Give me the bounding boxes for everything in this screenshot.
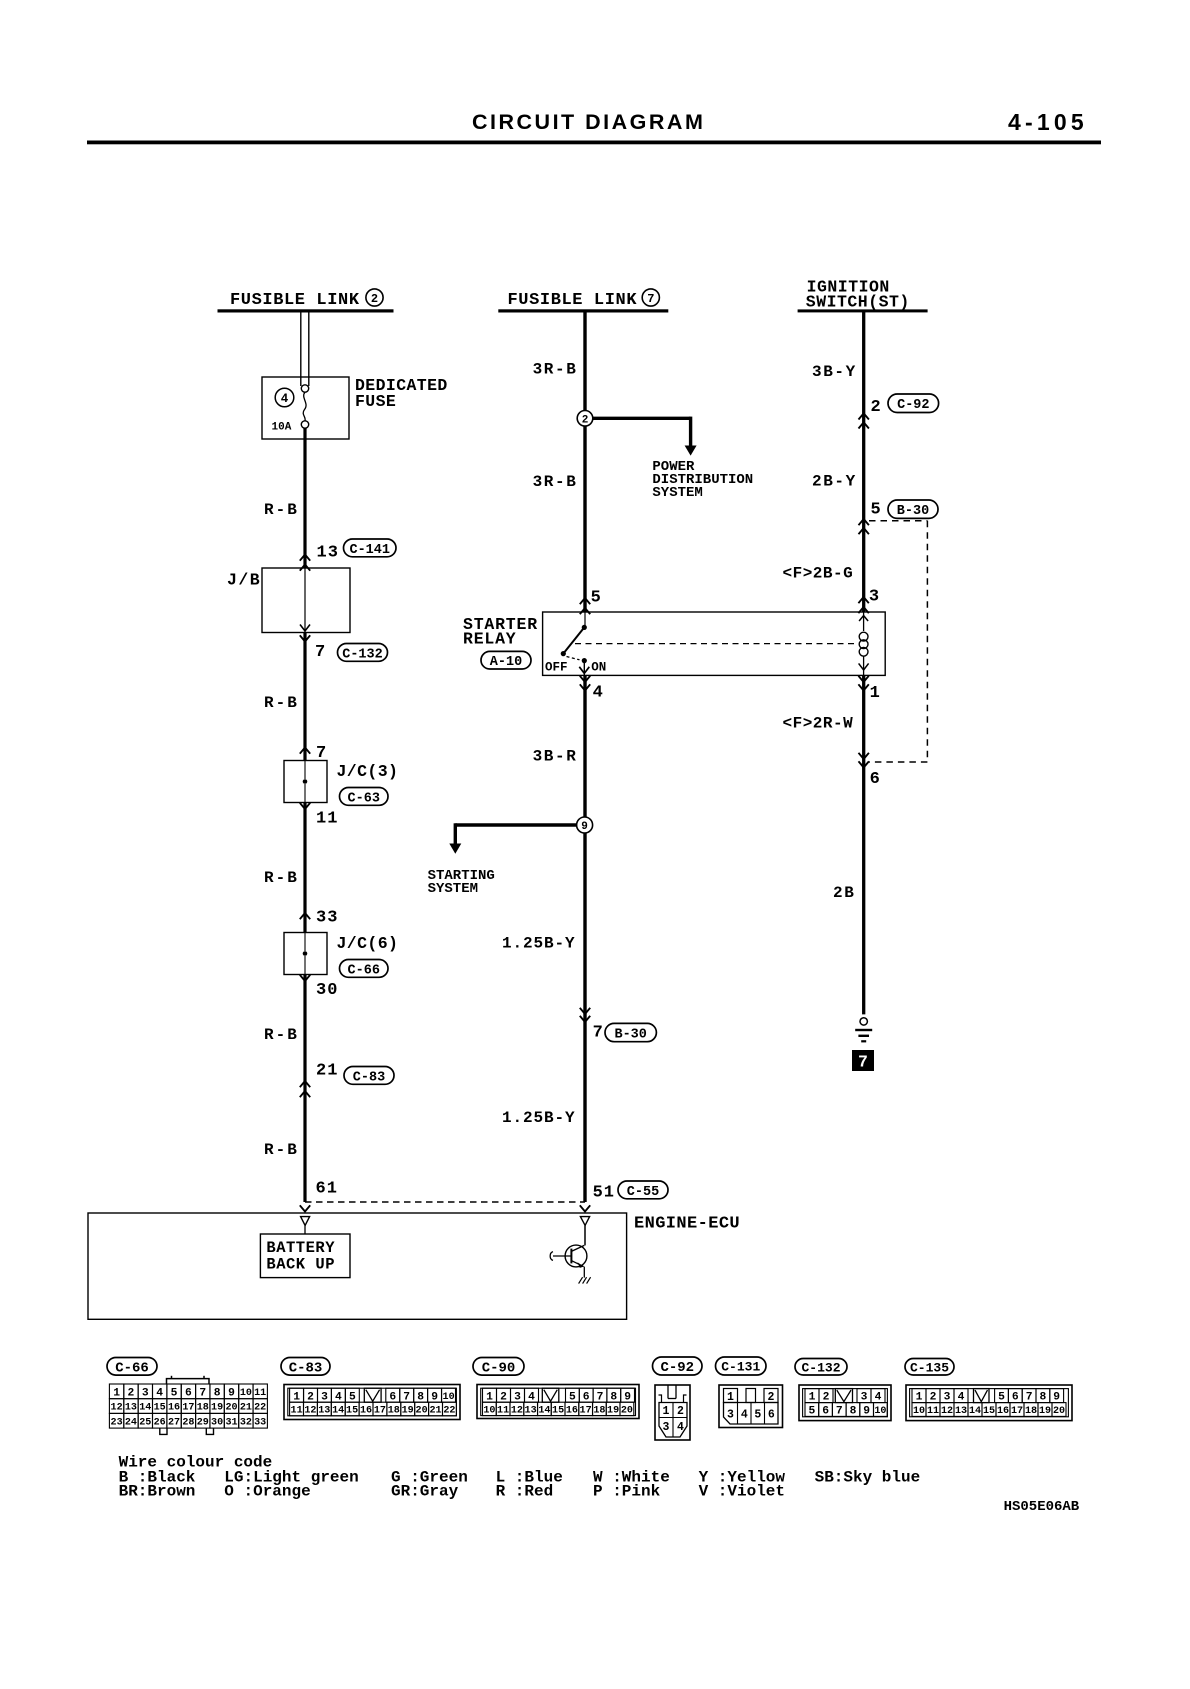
- svg-text:OFF: OFF: [545, 661, 568, 675]
- svg-text:61: 61: [316, 1180, 338, 1199]
- svg-text:2: 2: [930, 1392, 937, 1404]
- svg-text:O :Orange: O :Orange: [224, 1482, 310, 1500]
- wire 1.25B-Y node 9 to B-30: [583, 833, 586, 1202]
- pin 33 label: [316, 909, 338, 928]
- connector label C-141: [344, 539, 397, 558]
- ECU input triangle pin 51: [580, 1217, 589, 1226]
- svg-text:9: 9: [228, 1387, 235, 1399]
- connector C-66 bottom tabs: [160, 1428, 214, 1434]
- wire label 2B-Y: [812, 473, 857, 491]
- svg-text:20: 20: [225, 1403, 237, 1414]
- svg-text:1: 1: [486, 1391, 493, 1403]
- ENGINE-ECU box: [88, 1213, 627, 1319]
- svg-text:8: 8: [850, 1406, 857, 1418]
- svg-text:26: 26: [154, 1417, 166, 1428]
- svg-text:C-55: C-55: [627, 1185, 659, 1200]
- dashed wire pin 61 to pin 51: [305, 1201, 585, 1203]
- pin 13 label: [317, 544, 339, 563]
- pin 11 label: [316, 810, 338, 829]
- connector label C-83: [281, 1358, 330, 1377]
- svg-text:29: 29: [197, 1417, 209, 1428]
- node label FUSIBLE LINK 7: [508, 289, 660, 310]
- svg-text:14: 14: [969, 1406, 981, 1417]
- svg-text:SB:Sky blue: SB:Sky blue: [815, 1468, 921, 1486]
- svg-text:2: 2: [871, 398, 881, 417]
- fuse F4 element: [301, 385, 308, 428]
- wire label R-B (5): [264, 1141, 299, 1159]
- svg-text:C-66: C-66: [348, 963, 380, 978]
- svg-text:8: 8: [417, 1391, 424, 1403]
- svg-text:BR:Brown: BR:Brown: [119, 1482, 196, 1500]
- svg-text:7: 7: [597, 1391, 604, 1403]
- wire inside J/B: [300, 568, 310, 633]
- wire label R-B (4): [264, 1026, 299, 1044]
- svg-text:3: 3: [727, 1409, 734, 1422]
- node label IGNITION SWITCH(ST): [806, 278, 910, 312]
- svg-text:9: 9: [863, 1406, 870, 1418]
- svg-text:11: 11: [316, 810, 338, 829]
- pin 4 label starter relay: [593, 684, 603, 703]
- svg-text:C-132: C-132: [342, 647, 383, 662]
- connector chevron at pin 30: [300, 975, 310, 981]
- svg-text:SYSTEM: SYSTEM: [652, 485, 702, 501]
- label DEDICATED FUSE: [355, 376, 448, 411]
- wire label R-B (1): [264, 501, 299, 519]
- connector C-132 key: [835, 1389, 852, 1403]
- wire label R-B (2): [264, 694, 299, 712]
- svg-text:J/C(3): J/C(3): [337, 762, 399, 781]
- svg-text:15: 15: [346, 1406, 358, 1417]
- svg-text:2: 2: [500, 1391, 507, 1403]
- svg-text:19: 19: [211, 1403, 223, 1414]
- wire label 3R-B (1): [533, 360, 578, 378]
- connector label C-55: [618, 1181, 668, 1200]
- svg-text:19: 19: [607, 1406, 619, 1417]
- wire label R-B (3): [264, 869, 299, 887]
- svg-text:7: 7: [836, 1406, 843, 1418]
- svg-text:11: 11: [291, 1406, 303, 1417]
- wire colour code row 2: [119, 1482, 785, 1500]
- svg-text:9: 9: [624, 1391, 631, 1403]
- relay internal dashed link: [575, 643, 856, 645]
- page number 4-105: [1008, 109, 1088, 135]
- connector chevrons at pin 21: [300, 1081, 310, 1097]
- svg-text:1.25B-Y: 1.25B-Y: [502, 1109, 576, 1127]
- svg-text:20: 20: [416, 1406, 428, 1417]
- svg-text:1: 1: [809, 1392, 816, 1404]
- connector C-135 pin grid row 2: [912, 1403, 1066, 1418]
- wire label 1.25B-Y (1): [502, 934, 576, 952]
- svg-text:18: 18: [388, 1406, 400, 1417]
- svg-text:4: 4: [593, 684, 603, 703]
- svg-text:18: 18: [1025, 1406, 1037, 1417]
- svg-text:R-B: R-B: [264, 694, 299, 712]
- svg-text:17: 17: [1011, 1406, 1023, 1417]
- pin 61 label: [316, 1180, 338, 1199]
- label J/C(6): [337, 934, 399, 953]
- label BATTERY BACK UP: [266, 1239, 335, 1274]
- label STARTING SYSTEM: [428, 868, 495, 897]
- wire R-B J/C(6) to ECU: [303, 975, 306, 1203]
- connector chevrons at pin 2: [859, 413, 869, 428]
- bus bar under FUSIBLE LINK 7: [498, 309, 668, 312]
- svg-text:C-63: C-63: [348, 791, 380, 806]
- svg-text:1: 1: [870, 684, 880, 703]
- splice node 9: [577, 817, 593, 833]
- svg-text:V :Violet: V :Violet: [699, 1482, 785, 1500]
- svg-text:J/C(6): J/C(6): [337, 934, 399, 953]
- svg-text:20: 20: [621, 1406, 633, 1417]
- label STARTER RELAY: [463, 615, 538, 648]
- svg-text:ON: ON: [591, 661, 606, 675]
- pin 7 label (C-132): [315, 643, 325, 662]
- wire colour code row 1: [119, 1468, 921, 1486]
- svg-text:<F>2B-G: <F>2B-G: [783, 565, 854, 583]
- svg-text:GR:Gray: GR:Gray: [391, 1482, 459, 1500]
- svg-text:17: 17: [182, 1403, 194, 1414]
- svg-text:2B: 2B: [833, 884, 855, 902]
- connector C-92 shell: [655, 1385, 690, 1440]
- connector chevron at pin 11: [300, 803, 310, 809]
- BATTERY BACK UP box: [260, 1234, 350, 1278]
- connector label C-90: [473, 1358, 524, 1377]
- svg-text:7: 7: [1026, 1392, 1033, 1404]
- starter relay box: [543, 612, 886, 675]
- joint connector J/C(3) box: [284, 761, 327, 803]
- svg-text:R-B: R-B: [264, 869, 299, 887]
- pin 51 label: [593, 1183, 615, 1202]
- pin 7 label above J/C(3): [316, 744, 326, 763]
- svg-text:9: 9: [581, 821, 588, 833]
- wire label 3B-Y: [812, 363, 857, 381]
- connector C-132 outer shell: [799, 1385, 891, 1421]
- branch wire to power distribution system: [593, 417, 697, 456]
- svg-text:7: 7: [403, 1391, 410, 1403]
- connector C-83 pin grid row 1: [290, 1388, 456, 1403]
- svg-text:14: 14: [139, 1403, 151, 1414]
- svg-text:6: 6: [768, 1409, 775, 1422]
- svg-text:11: 11: [497, 1406, 509, 1417]
- svg-text:3: 3: [861, 1392, 868, 1404]
- connector C-83 key: [364, 1388, 381, 1402]
- connector label C-131: [716, 1357, 767, 1375]
- svg-text:B-30: B-30: [614, 1027, 646, 1042]
- ground number box 7: [852, 1050, 874, 1072]
- bus bar under IGNITION SWITCH: [798, 309, 928, 312]
- svg-text:22: 22: [443, 1406, 455, 1417]
- connector label B-30 inline: [605, 1023, 656, 1042]
- svg-text:7: 7: [858, 1053, 868, 1072]
- svg-text:16: 16: [168, 1403, 180, 1414]
- svg-text:7: 7: [593, 1023, 603, 1042]
- svg-text:9: 9: [1053, 1392, 1060, 1404]
- connector chevron at pin 51: [580, 1205, 590, 1211]
- connector chevrons at relay pin 5: [580, 598, 590, 614]
- connector label C-92: [653, 1357, 703, 1376]
- svg-text:1: 1: [293, 1391, 300, 1403]
- connector C-66 top tab: [167, 1376, 210, 1384]
- joint connector J/C(6) box: [284, 933, 327, 975]
- connector label C-135: [905, 1359, 954, 1376]
- svg-text:1: 1: [663, 1405, 670, 1418]
- svg-text:3B-R: 3B-R: [533, 747, 578, 765]
- connector C-131 shell: [719, 1385, 783, 1428]
- svg-text:4: 4: [156, 1387, 163, 1399]
- svg-text:SWITCH(ST): SWITCH(ST): [806, 292, 910, 311]
- svg-text:4-105: 4-105: [1008, 109, 1088, 135]
- svg-text:9: 9: [431, 1391, 438, 1403]
- wire 3B-Y ignition switch to C-92: [862, 311, 865, 612]
- wire label F 2R-W: [783, 715, 854, 733]
- pin 30 label: [316, 981, 338, 1000]
- svg-text:28: 28: [182, 1417, 194, 1428]
- connector C-83 outer shell: [284, 1385, 460, 1420]
- label POWER DISTRIBUTION SYSTEM: [652, 459, 753, 501]
- connector C-92 pin area: [659, 1403, 687, 1438]
- svg-text:19: 19: [402, 1406, 414, 1417]
- wire label 1.25B-Y (2): [502, 1109, 576, 1127]
- svg-text:3R-B: 3R-B: [533, 360, 578, 378]
- svg-text:C-135: C-135: [910, 1360, 949, 1375]
- wire 3R-B node 2 to starter relay: [583, 426, 586, 612]
- svg-text:3: 3: [142, 1387, 149, 1399]
- svg-text:RELAY: RELAY: [463, 629, 517, 648]
- svg-text:C-92: C-92: [897, 398, 929, 413]
- svg-text:BACK UP: BACK UP: [266, 1256, 335, 1274]
- svg-text:3: 3: [944, 1392, 951, 1404]
- wire 3B-R relay to node 9: [583, 675, 586, 817]
- svg-text:21: 21: [240, 1403, 252, 1414]
- svg-text:6: 6: [1012, 1392, 1019, 1404]
- svg-text:4: 4: [335, 1391, 342, 1403]
- ground symbol: [855, 1018, 872, 1043]
- wire colour code heading: [119, 1454, 273, 1472]
- connector C-131 pin area: [724, 1389, 779, 1425]
- svg-text:C-92: C-92: [660, 1360, 694, 1376]
- svg-text:27: 27: [168, 1417, 180, 1428]
- svg-text:12: 12: [304, 1406, 316, 1417]
- connector C-90 pin grid row 2: [483, 1402, 634, 1416]
- connector label C-132: [795, 1359, 847, 1376]
- fuse F4 number circle 4: [275, 388, 294, 407]
- connector C-90 key: [542, 1388, 559, 1402]
- svg-text:5: 5: [349, 1391, 356, 1403]
- connector chevron at pin 7 above J/C(3): [300, 748, 310, 754]
- connector C-90 outer shell: [477, 1385, 639, 1419]
- svg-text:4: 4: [677, 1421, 684, 1434]
- svg-text:C-141: C-141: [349, 543, 390, 558]
- header title CIRCUIT DIAGRAM: [472, 110, 705, 134]
- svg-text:FUSIBLE LINK: FUSIBLE LINK: [508, 291, 638, 310]
- svg-text:5: 5: [569, 1391, 576, 1403]
- header rule: [87, 141, 1101, 145]
- svg-text:31: 31: [225, 1417, 237, 1428]
- connector C-135 key: [974, 1389, 990, 1403]
- svg-text:FUSIBLE LINK: FUSIBLE LINK: [230, 291, 360, 310]
- connector chevrons at relay pin 4: [580, 676, 590, 691]
- svg-text:13: 13: [125, 1403, 137, 1414]
- svg-text:13: 13: [525, 1406, 537, 1417]
- pin 5 label B-30: [871, 501, 881, 520]
- svg-text:17: 17: [580, 1406, 592, 1417]
- svg-text:R :Red: R :Red: [496, 1482, 554, 1500]
- svg-text:6: 6: [583, 1391, 590, 1403]
- svg-text:10A: 10A: [272, 422, 292, 434]
- svg-text:R-B: R-B: [264, 501, 299, 519]
- svg-text:8: 8: [610, 1391, 617, 1403]
- svg-text:23: 23: [111, 1417, 123, 1428]
- svg-text:17: 17: [374, 1406, 386, 1417]
- svg-text:15: 15: [154, 1403, 166, 1414]
- label ON: [591, 661, 606, 675]
- svg-text:C-90: C-90: [482, 1360, 516, 1376]
- connector chevrons at relay pin 3: [858, 597, 868, 613]
- svg-text:R-B: R-B: [264, 1026, 299, 1044]
- svg-text:16: 16: [360, 1406, 372, 1417]
- svg-text:2: 2: [307, 1391, 314, 1403]
- svg-text:B-30: B-30: [897, 504, 929, 519]
- label J/B: [227, 571, 261, 590]
- svg-text:4: 4: [875, 1392, 882, 1404]
- relay switch armature: [561, 612, 590, 675]
- svg-text:1: 1: [113, 1387, 120, 1399]
- svg-text:11: 11: [254, 1388, 266, 1399]
- wire R-B fuse to J/B: [303, 428, 306, 568]
- svg-text:7: 7: [199, 1387, 206, 1399]
- svg-text:5: 5: [809, 1406, 816, 1418]
- svg-text:16: 16: [566, 1406, 578, 1417]
- bus bar under FUSIBLE LINK 2: [218, 309, 394, 312]
- connector C-132 pin grid row 2: [805, 1403, 887, 1418]
- fuse F4 rating 10A: [272, 422, 292, 434]
- svg-text:4: 4: [281, 392, 289, 406]
- svg-text:16: 16: [997, 1406, 1009, 1417]
- dashed wire B-30 bypass: [869, 521, 927, 762]
- branch wire to starting system: [449, 823, 576, 854]
- svg-text:2: 2: [582, 414, 589, 426]
- svg-text:6: 6: [185, 1387, 192, 1399]
- svg-text:21: 21: [429, 1406, 441, 1417]
- svg-text:3: 3: [514, 1391, 521, 1403]
- label J/C(3): [337, 762, 399, 781]
- connector chevron at pin 61: [300, 1205, 310, 1211]
- svg-text:11: 11: [927, 1406, 939, 1417]
- connector label A-10: [481, 651, 531, 670]
- svg-text:2B-Y: 2B-Y: [812, 473, 857, 491]
- connector C-90 pin grid row 1: [483, 1388, 635, 1403]
- svg-text:13: 13: [318, 1406, 330, 1417]
- svg-text:12: 12: [511, 1406, 523, 1417]
- connector C-83 pin grid row 2: [290, 1402, 457, 1416]
- svg-text:13: 13: [955, 1406, 967, 1417]
- connector label C-63: [340, 788, 389, 807]
- svg-text:18: 18: [593, 1406, 605, 1417]
- transistor emitter ground hatch: [579, 1277, 591, 1283]
- svg-text:2: 2: [371, 292, 378, 306]
- svg-text:10: 10: [443, 1392, 455, 1403]
- svg-text:<F>2R-W: <F>2R-W: [783, 715, 854, 733]
- svg-text:13: 13: [317, 544, 339, 563]
- wire R-B J/C(3) to J/C(6): [303, 803, 306, 933]
- connector chevrons at pin 7 B-30: [580, 1008, 590, 1022]
- label OFF: [545, 661, 568, 675]
- connector chevrons at pin 5 B-30: [859, 519, 869, 534]
- svg-text:32: 32: [240, 1417, 252, 1428]
- wire 3R-B fusible link 7 to node 2: [583, 311, 586, 411]
- svg-text:10: 10: [874, 1406, 886, 1417]
- svg-text:4: 4: [958, 1392, 965, 1404]
- svg-text:14: 14: [538, 1406, 550, 1417]
- wire double-line from fusible link 2 to dedicated fuse: [301, 311, 309, 386]
- pin 1 label starter relay: [870, 684, 880, 703]
- svg-text:CIRCUIT DIAGRAM: CIRCUIT DIAGRAM: [472, 110, 705, 134]
- svg-text:C-131: C-131: [721, 1360, 760, 1375]
- svg-text:FUSE: FUSE: [355, 392, 396, 411]
- svg-text:BATTERY: BATTERY: [266, 1239, 335, 1257]
- svg-text:14: 14: [332, 1406, 344, 1417]
- relay coil: [859, 612, 869, 675]
- connector chevrons at relay pin 1: [858, 676, 868, 691]
- ECU input triangle pin 61: [301, 1217, 310, 1234]
- svg-text:12: 12: [941, 1406, 953, 1417]
- connector chevrons at pin 13: [300, 555, 310, 571]
- wire R-B J/B to J/C(3): [303, 633, 306, 761]
- svg-text:6: 6: [870, 770, 880, 789]
- svg-text:HS05E06AB: HS05E06AB: [1004, 1499, 1080, 1515]
- svg-text:21: 21: [316, 1062, 338, 1081]
- svg-text:1.25B-Y: 1.25B-Y: [502, 934, 576, 952]
- svg-text:18: 18: [197, 1403, 209, 1414]
- svg-text:33: 33: [254, 1417, 266, 1428]
- svg-text:15: 15: [983, 1406, 995, 1417]
- svg-text:R-B: R-B: [264, 1141, 299, 1159]
- connector label C-132 inline: [338, 644, 388, 663]
- pin 5 label starter relay: [591, 588, 601, 607]
- label ENGINE-ECU: [634, 1215, 740, 1234]
- connector label C-66: [107, 1358, 157, 1377]
- svg-text:8: 8: [1040, 1392, 1047, 1404]
- svg-text:30: 30: [316, 981, 338, 1000]
- svg-text:33: 33: [316, 909, 338, 928]
- pin 7 label B-30: [593, 1023, 603, 1042]
- connector C-66 pin grid: [109, 1384, 267, 1428]
- svg-text:19: 19: [1039, 1406, 1051, 1417]
- svg-text:51: 51: [593, 1183, 615, 1202]
- wire label 2B: [833, 884, 855, 902]
- svg-text:C-83: C-83: [353, 1070, 385, 1085]
- svg-text:1: 1: [916, 1392, 923, 1404]
- svg-text:2: 2: [677, 1405, 684, 1418]
- svg-text:3: 3: [869, 587, 879, 606]
- connector chevrons at pin 6: [859, 753, 869, 768]
- pin 6 label: [870, 770, 880, 789]
- svg-text:8: 8: [214, 1387, 221, 1399]
- fuse F4 box (dedicated fuse): [262, 377, 349, 439]
- svg-text:10: 10: [240, 1388, 252, 1399]
- svg-text:A-10: A-10: [490, 655, 522, 670]
- svg-text:10: 10: [913, 1406, 925, 1417]
- svg-text:ENGINE-ECU: ENGINE-ECU: [634, 1215, 740, 1234]
- svg-text:4: 4: [528, 1391, 535, 1403]
- svg-text:7: 7: [647, 292, 654, 306]
- svg-text:7: 7: [315, 643, 325, 662]
- svg-text:5: 5: [171, 1387, 178, 1399]
- connector C-135 pin grid row 1: [912, 1389, 1064, 1404]
- svg-text:J/B: J/B: [227, 571, 261, 590]
- connector label B-30 top: [888, 500, 938, 519]
- svg-text:5: 5: [998, 1392, 1005, 1404]
- svg-text:3B-Y: 3B-Y: [812, 363, 857, 381]
